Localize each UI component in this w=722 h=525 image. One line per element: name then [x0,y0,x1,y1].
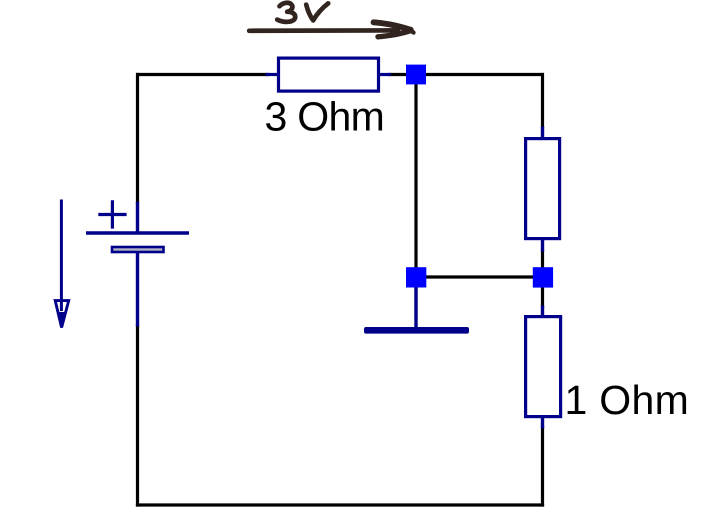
wire node C to R2 top [541,286,544,308]
stub right of resistor 3 Ohm [379,73,391,76]
wire bottom horizontal [136,503,544,506]
resistor 3 Ohm (top horizontal) [279,58,379,91]
battery bottom lead [136,251,139,327]
stub below resistor R2 [541,417,544,429]
resistor R1 (right upper vertical) [526,139,560,239]
battery negative plate (short box) [112,247,164,252]
wire right vertical upper [541,73,544,129]
current direction arrow (left, navy, downward) [60,200,63,312]
node A (top junction) [406,65,426,85]
node B (middle-left junction) [406,267,426,287]
wire middle horizontal (node B to node C) [424,275,535,278]
node C (middle-right junction) [533,267,553,287]
resistor R2 1 Ohm (right lower vertical) [526,317,561,417]
annotation current arrow (hand-drawn) [249,22,413,37]
wire left vertical lower [136,325,139,507]
ground symbol [364,327,469,334]
annotation 3V (hand-drawn) [277,3,328,22]
ground lead from node B [414,285,417,328]
stub below resistor R1 [541,239,544,252]
battery V1 plus sign [98,200,126,228]
wire left vertical upper [136,73,139,204]
wire top-left horizontal [136,73,269,76]
battery top lead [136,202,139,235]
battery positive plate (long) [86,231,189,234]
wire R1 bottom to node C [541,249,544,269]
wire top-right horizontal [388,73,544,76]
wire R2 bottom to bottom-right corner [541,426,544,507]
stub left of resistor 3 Ohm [266,73,280,76]
svg-text:3 Ohm: 3 Ohm [265,94,385,140]
svg-text:1 Ohm: 1 Ohm [565,377,690,423]
stub above resistor R2 [541,306,544,318]
wire middle vertical (node A to node B) [414,83,417,269]
stub above resistor R1 [541,127,544,140]
